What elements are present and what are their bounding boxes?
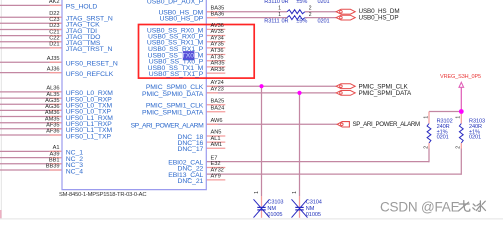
- svg-text:AY9: AY9: [211, 174, 221, 180]
- svg-text:AY35: AY35: [211, 42, 224, 48]
- svg-text:1: 1: [278, 12, 281, 18]
- svg-text:C23: C23: [49, 17, 59, 23]
- svg-text:C3104: C3104: [306, 200, 322, 206]
- svg-text:SM-8450-1-MPSP1518-TR-03-0-AC: SM-8450-1-MPSP1518-TR-03-0-AC: [59, 192, 146, 198]
- svg-text:2: 2: [309, 5, 312, 11]
- svg-text:PMIC_SPMI1_DATA: PMIC_SPMI1_DATA: [142, 110, 204, 117]
- svg-text:JTAG_TRST_N: JTAG_TRST_N: [66, 46, 113, 53]
- svg-text:±5%: ±5%: [296, 0, 307, 5]
- svg-text:C21: C21: [49, 29, 59, 35]
- svg-text:AV36: AV36: [211, 23, 224, 29]
- svg-text:R3111: R3111: [264, 19, 279, 25]
- svg-text:0201: 0201: [469, 135, 481, 141]
- svg-text:AL1: AL1: [211, 136, 221, 142]
- svg-text:0R: 0R: [282, 19, 289, 25]
- svg-text:AN5: AN5: [211, 130, 222, 136]
- svg-text:CSDN @FAE: CSDN @FAE: [380, 200, 460, 215]
- svg-text:AR36: AR36: [211, 67, 225, 73]
- svg-text:BB1: BB1: [49, 158, 60, 164]
- svg-text:AY34: AY34: [211, 35, 224, 41]
- svg-text:SP_ARI_POWER_ALARM: SP_ARI_POWER_ALARM: [131, 122, 205, 129]
- svg-text:0201: 0201: [318, 19, 330, 25]
- svg-text:SP_ARI_POWER_ALARM: SP_ARI_POWER_ALARM: [353, 121, 420, 128]
- svg-text:D23: D23: [49, 23, 59, 29]
- svg-text:1: 1: [278, 5, 281, 11]
- svg-text:NC_4: NC_4: [66, 168, 83, 175]
- svg-text:1: 1: [292, 191, 298, 194]
- svg-text:AY23: AY23: [211, 87, 224, 93]
- svg-text:0201: 0201: [437, 135, 449, 141]
- svg-text:D22: D22: [49, 11, 59, 17]
- svg-text:AT35: AT35: [211, 54, 224, 60]
- svg-text:AK2: AK2: [49, 0, 60, 5]
- svg-text:USB0_HS_DP: USB0_HS_DP: [160, 16, 204, 23]
- svg-text:AL36: AL36: [46, 86, 59, 92]
- svg-text:AJ36: AJ36: [47, 66, 60, 72]
- svg-text:AM1: AM1: [211, 142, 223, 148]
- svg-text:01005: 01005: [306, 212, 321, 218]
- svg-text:NM: NM: [267, 206, 276, 212]
- svg-text:UFS0_L1_TXP: UFS0_L1_TXP: [66, 133, 112, 140]
- svg-text:AF36: AF36: [46, 129, 59, 135]
- svg-text:1: 1: [254, 191, 260, 194]
- svg-text:UFS0_REFCLK: UFS0_REFCLK: [66, 71, 114, 78]
- svg-text:C22: C22: [49, 36, 59, 42]
- svg-text:D21: D21: [49, 42, 59, 48]
- svg-text:PS_HOLD: PS_HOLD: [66, 4, 98, 11]
- svg-text:BA24: BA24: [211, 105, 225, 111]
- svg-text:TX0: TX0: [182, 52, 195, 59]
- svg-text:2: 2: [424, 146, 430, 149]
- svg-text:USB0_SS_TX1_P: USB0_SS_TX1_P: [149, 71, 204, 78]
- svg-text:C3103: C3103: [267, 200, 283, 206]
- svg-text:A39: A39: [50, 151, 60, 157]
- svg-text:A1: A1: [53, 145, 60, 151]
- svg-text:1: 1: [456, 116, 462, 119]
- svg-text:BB39: BB39: [46, 164, 60, 170]
- svg-text:2: 2: [456, 146, 462, 149]
- svg-text:NM: NM: [306, 206, 315, 212]
- svg-text:1: 1: [424, 116, 430, 119]
- svg-text:PMIC_SPMI1_CLK: PMIC_SPMI1_CLK: [146, 103, 204, 110]
- svg-text:USB0_HS_DP: USB0_HS_DP: [359, 14, 399, 21]
- svg-text:VREG_S3H_0P5: VREG_S3H_0P5: [440, 74, 481, 80]
- svg-text:AY24: AY24: [211, 80, 224, 86]
- svg-text:AV35: AV35: [211, 29, 224, 35]
- svg-text:AM35: AM35: [45, 116, 60, 122]
- svg-text:DNC_21: DNC_21: [178, 178, 204, 185]
- svg-text:0201: 0201: [318, 0, 330, 5]
- svg-text:01005: 01005: [267, 212, 282, 218]
- svg-text:AG36: AG36: [45, 104, 59, 110]
- svg-text:DNC_17: DNC_17: [178, 146, 204, 153]
- svg-text:AG35: AG35: [45, 98, 59, 104]
- svg-text:AJ35: AJ35: [47, 56, 60, 62]
- svg-text:2: 2: [309, 12, 312, 18]
- svg-text:AM36: AM36: [45, 110, 60, 116]
- svg-text:0R: 0R: [282, 0, 289, 5]
- svg-text:AR35: AR35: [211, 61, 225, 67]
- svg-text:AW6: AW6: [211, 118, 223, 124]
- svg-text:PMIC_SPMI_DATA: PMIC_SPMI_DATA: [359, 90, 412, 97]
- svg-text:±5%: ±5%: [296, 19, 307, 25]
- svg-text:AL35: AL35: [46, 92, 59, 98]
- svg-text:E32: E32: [211, 161, 221, 167]
- svg-text:USB0_DP_AUX_P: USB0_DP_AUX_P: [147, 0, 204, 6]
- svg-text:BA36: BA36: [211, 11, 225, 17]
- svg-text:BA25: BA25: [211, 98, 225, 104]
- svg-text:AF35: AF35: [46, 123, 59, 129]
- svg-text:UFS0_RESET_N: UFS0_RESET_N: [66, 61, 118, 68]
- svg-text:PMIC_SPMI0_DATA: PMIC_SPMI0_DATA: [142, 91, 204, 98]
- svg-text:AT36: AT36: [211, 48, 224, 54]
